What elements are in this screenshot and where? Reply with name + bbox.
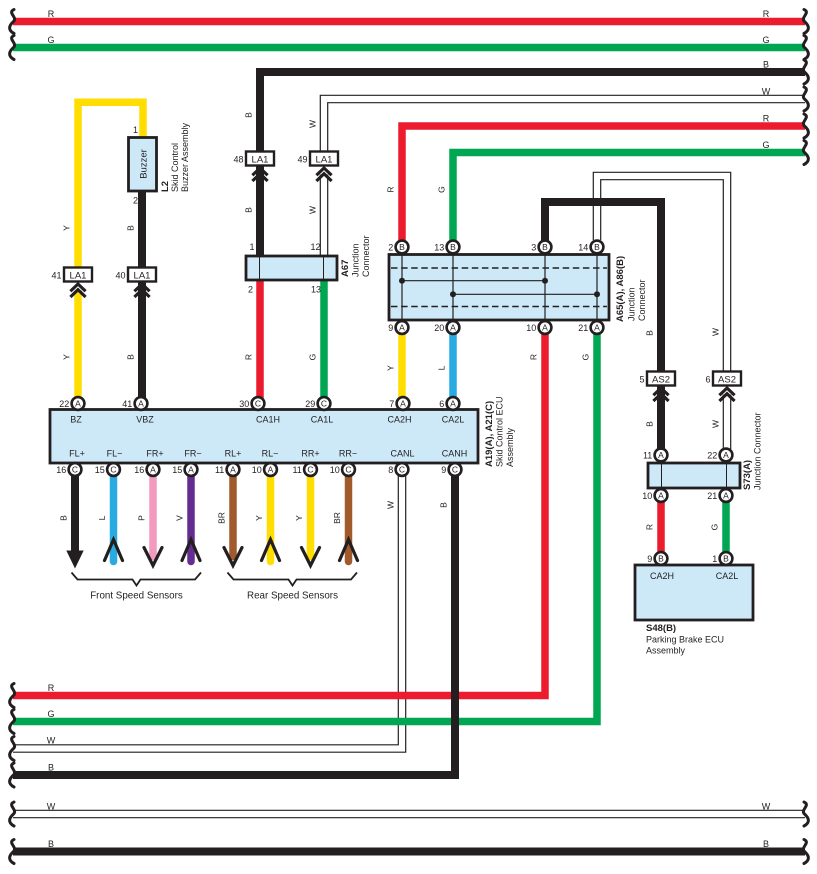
svg-text:C: C [307, 465, 313, 475]
svg-text:A: A [230, 465, 236, 475]
svg-text:22: 22 [59, 399, 69, 409]
svg-text:1: 1 [133, 125, 138, 135]
chevron arrows below 5 AS2 [653, 388, 668, 395]
svg-text:16: 16 [134, 465, 144, 475]
svg-text:C: C [345, 465, 351, 475]
svg-text:CA2L: CA2L [716, 571, 739, 581]
wire G from A65 pin 21(A) down then left to page edge (bus) [13, 333, 597, 722]
wire R bus top full width [13, 18, 805, 26]
S73 pin 22(A) [720, 449, 733, 462]
wire Y from LA1 41 chevron down to ECU pin 22(A) [74, 290, 82, 398]
svg-text:A67: A67 [340, 260, 351, 277]
break symbol R bus top-left [10, 10, 15, 34]
svg-text:AS2: AS2 [652, 375, 670, 386]
svg-text:14: 14 [578, 242, 588, 252]
svg-text:Skid Control ECU: Skid Control ECU [495, 396, 505, 467]
svg-text:C: C [321, 399, 327, 409]
svg-text:C: C [72, 465, 78, 475]
svg-text:Y: Y [62, 354, 72, 360]
svg-text:12: 12 [310, 242, 320, 252]
wire R from A65 pin 10(A) down then left to page edge (bus) [13, 333, 545, 696]
wire B sensor FL+ from ECU pin 16(C) [71, 476, 79, 553]
wire W from AS2 6 chevron down to S73 pin 22(A) [723, 395, 732, 450]
break symbol G bus bottom-left [10, 710, 15, 734]
svg-text:LA1: LA1 [252, 155, 269, 166]
svg-text:41: 41 [122, 399, 132, 409]
svg-text:16: 16 [56, 465, 66, 475]
svg-text:G: G [762, 35, 769, 45]
svg-text:R: R [763, 114, 770, 124]
connector 49 LA1 [310, 152, 338, 166]
svg-text:CANH: CANH [442, 449, 468, 459]
wire Y sensor RR+ from ECU pin 11(C) [307, 476, 315, 557]
connector 40 LA1 [128, 268, 156, 282]
svg-text:Junction: Junction [351, 243, 361, 277]
open arrow down on sensor RR+ [302, 548, 320, 566]
chevron arrows below 40 LA1 [134, 284, 149, 291]
wire R bus upper-mid from right edge to A65 pin 2(B) [402, 126, 805, 242]
A65 pin 10(A) [539, 321, 552, 334]
junction connector A67 box [246, 256, 337, 280]
svg-text:BZ: BZ [70, 415, 82, 425]
break symbol R bus top-right [803, 10, 808, 34]
A65 internal dashed bus line upper [391, 267, 607, 269]
svg-text:BR: BR [217, 512, 227, 524]
ECU pin 9(C) CANH [449, 463, 462, 476]
svg-text:AS2: AS2 [718, 375, 736, 386]
svg-text:B: B [244, 207, 254, 213]
wire Y from buzzer pin 1 up, left, down to connector LA1 41 [78, 102, 143, 268]
wire G bus top full width [13, 44, 805, 52]
svg-text:A: A [400, 399, 406, 409]
wire B CANH from ECU pin 9(C) down then left to page edge [13, 476, 455, 775]
svg-text:CA2H: CA2H [650, 571, 674, 581]
svg-text:C: C [255, 399, 261, 409]
svg-text:A: A [450, 399, 456, 409]
S73 pin 11(A) [655, 449, 668, 462]
svg-text:FR+: FR+ [146, 449, 163, 459]
svg-text:15: 15 [172, 465, 182, 475]
junction connector A65(A) A86(B) box [389, 255, 609, 321]
svg-text:FL+: FL+ [69, 449, 85, 459]
svg-text:R: R [48, 9, 55, 19]
A65 pin 3(B) [539, 241, 552, 254]
wire Y sensor RL- from ECU pin 10(A) [267, 476, 275, 562]
A65 internal pin-through line x=453 [452, 255, 454, 319]
svg-text:A: A [138, 399, 144, 409]
svg-text:G: G [710, 524, 720, 531]
svg-text:29: 29 [305, 399, 315, 409]
svg-text:B: B [126, 354, 136, 360]
svg-text:P: P [137, 515, 147, 521]
svg-text:10: 10 [642, 491, 652, 501]
svg-text:B: B [244, 112, 254, 118]
svg-text:6: 6 [705, 375, 710, 385]
svg-text:Rear Speed Sensors: Rear Speed Sensors [247, 591, 338, 602]
svg-text:13: 13 [311, 285, 321, 295]
svg-text:CA1H: CA1H [256, 415, 280, 425]
break symbol G mid bus top-right [803, 141, 808, 165]
break symbol B lower bus bottom-right [803, 840, 808, 864]
chevron arrows below 49 LA1 [316, 168, 331, 175]
svg-text:R: R [244, 354, 254, 360]
ECU pin 8(C) CANL [396, 463, 409, 476]
svg-text:S48(B): S48(B) [646, 623, 676, 634]
svg-text:20: 20 [434, 323, 444, 333]
svg-text:Buzzer Assembly: Buzzer Assembly [180, 122, 190, 192]
wire Y from A65 pin 9(A) down to ECU pin 7(A) CA2H [398, 333, 406, 398]
svg-text:FR−: FR− [184, 449, 201, 459]
svg-text:BR: BR [332, 512, 342, 524]
svg-text:A: A [450, 323, 456, 333]
svg-text:LA1: LA1 [134, 271, 151, 282]
break symbol W bus bottom-left [10, 737, 15, 761]
S48 pin 9(B) [655, 552, 668, 565]
svg-text:10: 10 [526, 323, 536, 333]
svg-text:22: 22 [707, 450, 717, 460]
wire V sensor FR- from ECU pin 15(A) [187, 476, 195, 562]
open arrow down on sensor RL+ [224, 548, 242, 566]
svg-text:Junction: Junction [627, 287, 637, 321]
svg-text:Assembly: Assembly [505, 427, 515, 467]
A65 internal jumper bus 1 with junction dots [402, 280, 545, 282]
svg-text:W: W [762, 87, 771, 97]
svg-text:8: 8 [388, 465, 393, 475]
svg-text:B: B [48, 839, 54, 849]
svg-text:A: A [594, 323, 600, 333]
wire G bus upper-mid from right edge to A65 pin 13(B) [453, 153, 805, 242]
wire R from A67 pin 2 down to ECU pin 30(C) CA1H [256, 280, 264, 398]
arrowhead of sensor wire FL+ [66, 551, 83, 569]
wire B from buzzer pin 2 down through LA1 40 to ECU pin 41(A) [138, 190, 146, 398]
brace rear speed sensors [228, 573, 358, 586]
svg-text:11: 11 [215, 465, 224, 475]
svg-text:S73(A): S73(A) [742, 460, 753, 490]
svg-text:A: A [268, 465, 274, 475]
svg-text:13: 13 [434, 242, 444, 252]
S73 pin 10(A) [655, 489, 668, 502]
svg-text:B: B [399, 242, 405, 252]
ECU pin 41(A) VBZ [135, 397, 148, 410]
ECU pin 16(C) FL+ [69, 463, 82, 476]
wire L sensor FL- from ECU pin 15(C) [110, 476, 118, 562]
connector 41 LA1 [64, 268, 92, 282]
ECU pin 11(A) RL+ [227, 463, 240, 476]
break symbol G bus top-right [803, 36, 808, 60]
ECU pin 10(C) RR- [342, 463, 355, 476]
A65 pin 21(A) [591, 321, 604, 334]
svg-text:B: B [723, 554, 729, 564]
chevron arrows below 6 AS2 [719, 388, 734, 395]
svg-text:Connector: Connector [361, 235, 371, 277]
ECU pin 6(A) CA2L [447, 397, 460, 410]
open arrow up on sensor FR- [182, 540, 200, 561]
ECU pin 15(C) FL- [107, 463, 120, 476]
svg-text:41: 41 [51, 271, 61, 281]
svg-text:W: W [386, 501, 396, 509]
ECU pin 30(C) CA1H [252, 397, 265, 410]
wire G from A67 pin 13 down to ECU pin 29(C) CA1L [320, 280, 328, 398]
ECU pin 16(A) FR+ [147, 463, 160, 476]
svg-text:B: B [542, 242, 548, 252]
svg-text:Y: Y [386, 365, 396, 371]
svg-text:RL−: RL− [262, 449, 279, 459]
ECU pin 29(C) CA1L [318, 397, 331, 410]
break symbol W bus top-right [803, 87, 808, 111]
chevron arrows below 41 LA1 [70, 284, 85, 291]
ECU pin 15(A) FR- [185, 463, 198, 476]
svg-text:Y: Y [62, 225, 72, 231]
skid control ECU A19(A) A21(C) box [50, 410, 478, 464]
wire W from A65 pin 14(B) up/right/down to AS2 pin 6 [597, 176, 727, 372]
svg-text:9: 9 [441, 465, 446, 475]
svg-text:Parking Brake ECU: Parking Brake ECU [646, 635, 724, 645]
svg-text:CANL: CANL [390, 449, 414, 459]
svg-text:R: R [763, 9, 770, 19]
open arrow up on sensor FL- [105, 540, 123, 561]
svg-text:CA2L: CA2L [442, 415, 465, 425]
svg-text:C: C [452, 465, 458, 475]
connector 6 AS2 [713, 372, 741, 386]
brace front speed sensors [72, 573, 202, 586]
svg-text:9: 9 [388, 323, 393, 333]
buzzer L2 box [129, 138, 157, 192]
wire R from S73 pin 10(A) down to S48 pin 9(B) [657, 502, 665, 554]
svg-text:5: 5 [639, 375, 644, 385]
connector 48 LA1 [246, 152, 274, 166]
A65 pin 9(A) [396, 321, 409, 334]
svg-text:B: B [450, 242, 456, 252]
svg-text:R: R [645, 524, 655, 530]
A65 internal pin-through line x=402 [401, 255, 403, 319]
svg-text:G: G [437, 186, 447, 193]
svg-text:W: W [308, 120, 318, 128]
wire W bus bottom full width [13, 810, 805, 819]
A65 internal pin-through line x=597 [596, 255, 598, 319]
wire W CANL from ECU pin 8(C) down then left to page edge [13, 476, 402, 749]
svg-text:A: A [723, 450, 729, 460]
svg-text:FL−: FL− [107, 449, 123, 459]
svg-text:CA1L: CA1L [311, 415, 334, 425]
svg-text:2: 2 [133, 196, 138, 206]
svg-text:Front Speed Sensors: Front Speed Sensors [90, 591, 183, 602]
svg-text:1: 1 [712, 554, 717, 564]
wire P sensor FR+ from ECU pin 16(A) [149, 476, 157, 557]
break symbol R mid bus top-right [803, 114, 808, 138]
svg-text:W: W [711, 328, 721, 336]
svg-text:Y: Y [294, 515, 304, 521]
S73 pin 21(A) [720, 489, 733, 502]
svg-text:B: B [594, 242, 600, 252]
ECU pin 10(A) RL- [264, 463, 277, 476]
svg-text:W: W [711, 420, 721, 428]
svg-text:7: 7 [389, 399, 394, 409]
svg-text:C: C [399, 465, 405, 475]
svg-text:A: A [75, 399, 81, 409]
svg-text:G: G [762, 140, 769, 150]
svg-text:W: W [47, 802, 56, 812]
svg-text:B: B [645, 330, 655, 336]
wire B bus top from right edge, corner down to LA1 48 [260, 72, 805, 153]
svg-text:B: B [59, 515, 69, 521]
svg-text:10: 10 [330, 465, 340, 475]
svg-text:LA1: LA1 [70, 271, 87, 282]
svg-text:LA1: LA1 [316, 155, 333, 166]
open arrow up on sensor RL- [262, 540, 280, 561]
break symbol W lower bus bottom-left [10, 802, 15, 826]
svg-text:VBZ: VBZ [136, 415, 154, 425]
svg-text:Skid Control: Skid Control [170, 143, 180, 192]
svg-text:W: W [762, 802, 771, 812]
wire B from LA1 48 down to A67 pin 1 [256, 165, 264, 257]
svg-text:Junction Connector: Junction Connector [753, 412, 763, 490]
svg-text:RL+: RL+ [225, 449, 242, 459]
svg-text:B: B [48, 763, 54, 773]
svg-text:A: A [542, 323, 548, 333]
svg-text:B: B [763, 839, 769, 849]
wire W segment below connector LA1 49 down to A67 pin 12 [320, 175, 329, 257]
svg-text:L: L [437, 365, 447, 370]
svg-text:40: 40 [115, 271, 125, 281]
svg-text:RR−: RR− [339, 449, 357, 459]
svg-text:A: A [658, 450, 664, 460]
wire G from S73 pin 21(A) down to S48 pin 1(B) [722, 502, 730, 554]
svg-text:49: 49 [297, 155, 307, 165]
svg-text:Y: Y [254, 515, 264, 521]
svg-text:G: G [308, 354, 318, 361]
svg-text:48: 48 [233, 155, 243, 165]
svg-text:W: W [308, 206, 318, 214]
svg-text:1: 1 [249, 242, 254, 252]
svg-text:15: 15 [95, 465, 105, 475]
chevron arrows below 48 LA1 [252, 168, 267, 175]
svg-text:W: W [47, 736, 56, 746]
svg-text:RR+: RR+ [301, 449, 319, 459]
wire BR sensor RL+ from ECU pin 11(A) [229, 476, 237, 557]
wire B from AS2 5 down to S73 pin 11(A) [657, 386, 665, 449]
svg-text:CA2H: CA2H [387, 415, 411, 425]
wire B bus bottom full width [13, 848, 805, 856]
wire L from A65 pin 20(A) down to ECU pin 6(A) CA2L [449, 333, 457, 398]
svg-text:A19(A), A21(C): A19(A), A21(C) [484, 401, 495, 467]
break symbol B bus bottom-left [10, 763, 15, 787]
open arrow down on sensor FR+ [144, 548, 162, 566]
svg-text:B: B [645, 421, 655, 427]
svg-text:2: 2 [248, 285, 253, 295]
break symbol B lower bus bottom-left [10, 840, 15, 864]
svg-text:R: R [529, 354, 539, 360]
svg-text:6: 6 [439, 399, 444, 409]
break symbol R bus bottom-left [10, 684, 15, 708]
svg-text:A: A [150, 465, 156, 475]
svg-text:B: B [658, 554, 664, 564]
svg-text:21: 21 [578, 323, 588, 333]
svg-text:V: V [175, 515, 185, 521]
svg-text:10: 10 [252, 465, 262, 475]
svg-text:G: G [581, 354, 591, 361]
svg-text:B: B [439, 502, 449, 508]
svg-text:R: R [48, 683, 55, 693]
svg-text:2: 2 [388, 242, 393, 252]
svg-text:11: 11 [643, 450, 652, 460]
svg-text:11: 11 [292, 465, 301, 475]
svg-text:Buzzer: Buzzer [139, 149, 150, 179]
S48 pin 1(B) [720, 552, 733, 565]
svg-text:21: 21 [707, 491, 717, 501]
svg-text:30: 30 [239, 399, 249, 409]
open arrow up on sensor RR- [340, 540, 358, 561]
svg-text:B: B [763, 60, 769, 70]
svg-text:Connector: Connector [637, 279, 647, 321]
svg-text:B: B [126, 225, 136, 231]
svg-text:Assembly: Assembly [646, 646, 686, 656]
ECU pin 7(A) CA2H [397, 397, 410, 410]
junction connector S73(A) box [648, 463, 740, 488]
connector 5 AS2 [647, 372, 675, 386]
A65 pin 2(B) [396, 241, 409, 254]
break symbol B bus top-right [803, 60, 808, 84]
svg-text:A: A [723, 491, 729, 501]
wire B from A65 pin 3(B) up/right/down to AS2 pin 5 [545, 202, 661, 372]
svg-text:A: A [188, 465, 194, 475]
svg-text:9: 9 [647, 554, 652, 564]
break symbol W lower bus bottom-right [803, 802, 808, 826]
svg-text:A: A [399, 323, 405, 333]
A65 pin 13(B) [447, 241, 460, 254]
ECU pin 11(C) RR+ [304, 463, 317, 476]
svg-text:A: A [658, 491, 664, 501]
A65 internal dashed bus line lower [391, 306, 607, 308]
A65 pin 20(A) [447, 321, 460, 334]
svg-text:3: 3 [531, 242, 536, 252]
svg-text:C: C [110, 465, 116, 475]
svg-text:G: G [47, 709, 54, 719]
A65 internal pin-through line x=545 [544, 255, 546, 319]
parking brake ECU S48(B) box [635, 565, 753, 620]
A65 pin 14(B) [591, 241, 604, 254]
ECU pin 22(A) BZ [72, 397, 85, 410]
wire BR sensor RR- from ECU pin 10(C) [345, 476, 353, 562]
break symbol G bus top-left [10, 36, 15, 60]
wire W bus top, from right edge to junction connector A67 drop at x=324 [324, 99, 805, 152]
svg-text:L: L [97, 515, 107, 520]
svg-text:A65(A), A86(B): A65(A), A86(B) [615, 256, 626, 322]
A65 internal jumper bus 2 with junction dots [453, 293, 597, 295]
svg-text:R: R [386, 186, 396, 192]
svg-text:G: G [47, 35, 54, 45]
